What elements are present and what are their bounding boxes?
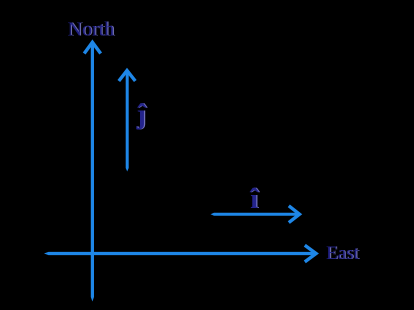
node East axis tail taper bbox=[44, 252, 49, 255]
node North axis arrowhead bbox=[84, 42, 101, 53]
node i-hat vector arrowhead bbox=[289, 206, 300, 223]
node East axis arrowhead bbox=[305, 245, 316, 262]
wire North axis shaft bbox=[91, 44, 94, 298]
node j-hat vector tail taper bbox=[126, 168, 129, 172]
node North axis tail taper bbox=[91, 297, 94, 302]
wire East axis shaft bbox=[49, 252, 315, 255]
node j-hat vector arrowhead bbox=[119, 71, 136, 82]
svg-text:ĵ: ĵ bbox=[136, 100, 147, 131]
node label East bbox=[326, 243, 361, 264]
wire j-hat vector shaft bbox=[126, 72, 129, 168]
node i-hat vector tail taper bbox=[211, 213, 215, 216]
svg-text:î: î bbox=[249, 184, 259, 215]
node label j-hat bbox=[136, 100, 148, 131]
svg-text:North: North bbox=[68, 19, 115, 41]
node label North bbox=[68, 19, 116, 41]
svg-text:East: East bbox=[326, 243, 359, 264]
node label i-hat bbox=[249, 184, 260, 215]
wire i-hat vector shaft bbox=[214, 213, 297, 216]
